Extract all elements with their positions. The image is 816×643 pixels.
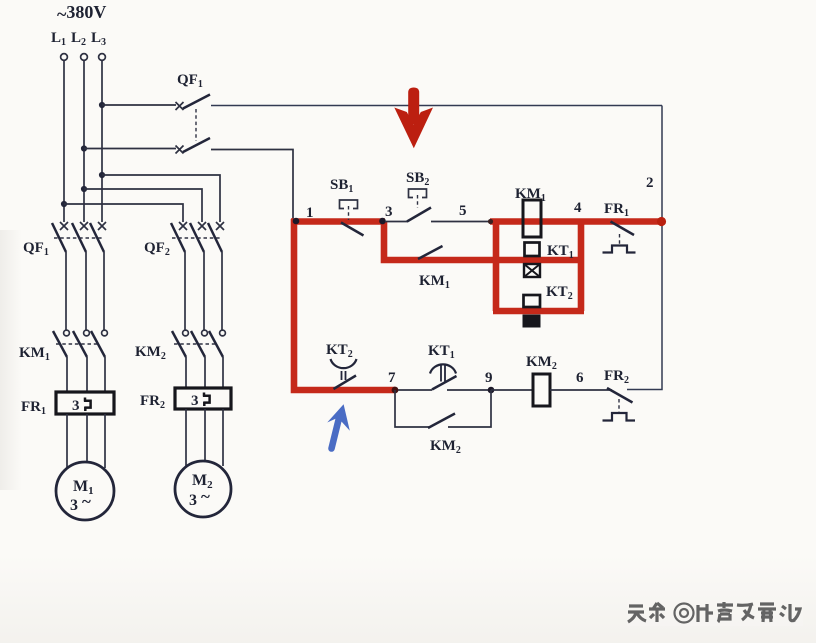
SB1 actuator dashed stem <box>348 206 350 220</box>
terminal L3 <box>99 54 106 61</box>
SB2 actuator bracket <box>409 189 427 198</box>
QF2 branch pole3 contact x <box>216 222 224 230</box>
SB2 NO blade <box>407 208 431 222</box>
terminal L2 <box>81 54 88 61</box>
QF1 linkage dashed <box>195 109 197 141</box>
motor M1 <box>56 462 114 520</box>
wire QF2 out to KM2 contacts <box>184 252 186 330</box>
KM1 linkage dashed <box>56 343 99 345</box>
FR2 dashed stem <box>618 399 620 412</box>
svg-text:~380V: ~380V <box>57 2 106 24</box>
QF2 branch linkage dashed <box>172 237 222 239</box>
svg-text:~: ~ <box>201 487 210 506</box>
thermal relay FR1 heater box <box>56 392 114 414</box>
KM2 pole1 fixed contact <box>183 330 189 336</box>
FR1 dashed stem <box>619 234 621 245</box>
junction on L1 feeding QF2 <box>61 201 67 207</box>
svg-text:3: 3 <box>70 497 78 514</box>
svg-text:3: 3 <box>191 393 199 409</box>
QF2 branch pole1 blade <box>171 223 185 252</box>
FR2 NC contact blade <box>607 388 633 403</box>
KT1 delayed contact cap <box>430 364 456 373</box>
coil KT1 <box>525 243 540 257</box>
QF1 branch pole1 contact x <box>60 222 68 230</box>
KM2 pole3 blade <box>209 331 223 357</box>
QF1 pole1 contact x <box>176 102 184 110</box>
wire KM2 coil to FR2 <box>550 389 612 391</box>
coil KM2 <box>533 374 550 406</box>
wire red coil box right vertical <box>578 219 585 312</box>
wire KM1 out to FR1 <box>66 357 68 393</box>
wire QF1 pole2 output <box>211 150 293 220</box>
FR1 heater element symbol <box>84 398 91 412</box>
node 1 junction dot <box>293 218 300 225</box>
watermark light overlay <box>627 600 803 626</box>
KM2 pole1 blade <box>172 331 186 357</box>
wire node9 to KM2 coil <box>491 389 533 391</box>
KT1 contact stem double line <box>441 365 445 382</box>
svg-text:3: 3 <box>72 398 80 414</box>
QF2 branch pole1 contact x <box>179 222 187 230</box>
QF1 branch pole2 contact x <box>80 222 88 230</box>
KT2 delayed contact cup <box>331 359 357 368</box>
SB1 actuator bracket <box>340 200 358 209</box>
KT2 contact blade <box>334 376 357 390</box>
node 7 junction dot <box>392 387 399 394</box>
wire red highlighted path: left rail node1 down to bottom row <box>294 219 395 390</box>
wire L3 to QF1 pole1 <box>102 104 176 106</box>
QF2 branch pole3 blade <box>208 223 222 252</box>
wire L2 to QF1 pole2 <box>84 148 176 150</box>
QF1 pole2 contact x <box>176 146 184 154</box>
contactor KM1 aux blade (self-hold) <box>418 246 443 259</box>
SB2 actuator dashed stem <box>417 195 419 208</box>
wire right rail (node 2 vertical) <box>627 106 662 390</box>
wire node3 to SB2 <box>385 221 408 223</box>
KM1 pole1 blade <box>53 331 67 357</box>
svg-text:9: 9 <box>485 370 493 386</box>
SB1 NC blade <box>341 223 364 236</box>
KM2 aux blade <box>428 414 455 429</box>
junction on L3 feeding QF1 main pole 1 <box>99 102 105 108</box>
svg-text:6: 6 <box>576 370 584 386</box>
KM1 pole3 blade <box>91 331 105 357</box>
wire red top rail node1 to node3 <box>291 218 385 225</box>
node 9 junction dot <box>488 387 495 394</box>
wire red top rail node5 to node2 <box>490 218 661 225</box>
KM2 pole2 fixed contact <box>202 330 208 336</box>
junction on L3 feeding QF2 <box>99 172 105 178</box>
wire L1 vertical <box>63 61 65 222</box>
KM2 pole3 fixed contact <box>220 330 226 336</box>
junction on L2 feeding QF1 main pole 2 <box>81 145 87 151</box>
KM1 pole2 fixed contact <box>84 330 90 336</box>
wire L2 vertical <box>83 61 85 222</box>
svg-text:3: 3 <box>189 492 197 509</box>
wire L3 vertical <box>101 61 103 222</box>
wire KT1 to node9 <box>447 389 491 391</box>
svg-text:1: 1 <box>306 205 314 221</box>
KT2 delay element (solid box) <box>523 315 541 328</box>
node 3 junction dot <box>379 218 386 225</box>
QF2 branch pole2 blade <box>190 223 204 252</box>
KT2 contact stem double line <box>342 371 346 380</box>
wire red coil box bottom <box>493 308 584 315</box>
FR1 reset symbol <box>603 246 636 253</box>
KM1 pole2 blade <box>73 331 87 357</box>
KM2 linkage dashed <box>174 343 217 345</box>
wire SB2 to node5 <box>431 221 491 223</box>
wire node7 to KT1 contact <box>398 389 432 391</box>
wire FR1 to motor M1 <box>66 414 68 469</box>
FR2 reset symbol <box>603 413 636 421</box>
FR1 NC contact blade <box>611 222 635 236</box>
wire red node3 branch down and KT1 row <box>384 222 581 261</box>
watermark 头条@叶落飞舞泣 <box>628 602 800 623</box>
svg-text:2: 2 <box>646 175 654 191</box>
QF1 pole1 blade <box>183 95 210 109</box>
KT1 contact blade <box>432 376 457 390</box>
QF1 branch pole3 contact x <box>98 222 106 230</box>
wire L1 tap to QF2 pole1 <box>64 204 183 222</box>
wire red coil box left vertical <box>493 219 500 312</box>
svg-text:7: 7 <box>388 370 396 386</box>
red junction dot at node2 <box>657 217 666 226</box>
wire KM2 aux parallel branch <box>395 390 491 427</box>
wire QF1 out to KM1 contacts <box>65 252 67 330</box>
terminal L1 <box>61 54 68 61</box>
junction at node5 into coil box <box>488 219 493 224</box>
wire L2 tap to QF2 pole2 <box>84 189 202 222</box>
KM2 pole2 blade <box>191 331 205 357</box>
wire L3 tap to QF2 pole3 <box>102 175 220 222</box>
svg-text:4: 4 <box>574 200 582 216</box>
QF1 branch pole3 blade <box>90 223 104 252</box>
blue arrow (up) <box>332 416 340 449</box>
motor M2 <box>175 461 231 517</box>
wire QF1 pole1 output top rail <box>211 105 662 107</box>
red arrow (down) <box>408 88 419 125</box>
wire FR2 to motor M2 <box>185 409 187 467</box>
coil KT2 <box>524 295 541 307</box>
KM1 pole1 fixed contact <box>64 330 70 336</box>
QF2 branch pole2 contact x <box>198 222 206 230</box>
svg-text:~: ~ <box>82 492 91 511</box>
svg-text:3: 3 <box>385 204 393 220</box>
wire KM2 out to FR2 <box>185 357 187 389</box>
KM1 pole3 fixed contact <box>102 330 108 336</box>
QF1 branch pole2 blade <box>72 223 86 252</box>
QF1 pole2 blade <box>183 138 210 152</box>
QF1 branch linkage dashed <box>54 237 104 239</box>
FR2 heater element symbol <box>203 393 210 407</box>
KT1 delay element (box with X) <box>524 264 540 277</box>
QF1 branch pole1 blade <box>52 223 66 252</box>
coil KM1 <box>523 200 541 237</box>
junction on L2 feeding QF2 <box>81 186 87 192</box>
svg-text:5: 5 <box>459 203 467 219</box>
thermal relay FR2 heater box <box>175 388 231 409</box>
